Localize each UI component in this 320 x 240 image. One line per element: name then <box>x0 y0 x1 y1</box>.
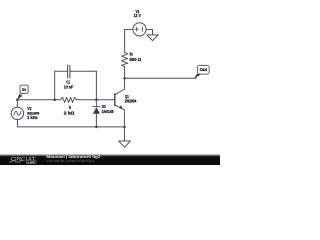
source V2 (square 1 kHz) <box>11 107 23 119</box>
ground (bottom) <box>119 141 131 147</box>
svg-text:LAB: LAB <box>28 160 36 164</box>
node collector junction <box>123 77 126 80</box>
flag In box <box>20 85 28 93</box>
flag In pointer <box>17 94 22 100</box>
wire V1 right lead <box>146 30 152 35</box>
wire main base net right segment <box>77 99 115 101</box>
svg-text:In: In <box>22 87 26 92</box>
wire emitter vertical <box>123 110 125 127</box>
node diode-top junction <box>95 98 98 101</box>
wire cap loop top-left horizontal <box>55 70 68 72</box>
resistor Rc <box>122 52 128 66</box>
logo LAB badge <box>26 160 36 164</box>
logo waveform stroke <box>9 161 23 162</box>
wire collector vertical <box>124 78 126 89</box>
resistor R <box>61 97 77 102</box>
footer bar <box>0 154 220 157</box>
capacitor C1 <box>68 65 70 78</box>
wire cap loop top-right horizontal <box>70 70 97 72</box>
svg-text:circuitlab.com/c/5mr5ku: circuitlab.com/c/5mr5ku <box>46 159 94 163</box>
node emitter-ground junction <box>123 126 126 129</box>
svg-text:500 Ω: 500 Ω <box>130 57 142 62</box>
diode D3 <box>93 107 100 114</box>
svg-text:2N3904: 2N3904 <box>125 99 137 104</box>
wire V2 lower lead <box>16 120 18 127</box>
wire main base net left segment <box>17 99 60 101</box>
svg-text:1N4148: 1N4148 <box>102 109 114 114</box>
wire Rc lower lead <box>124 67 126 79</box>
node cap-loop left junction <box>53 98 56 101</box>
source V1 (12 V DC) <box>133 23 146 36</box>
svg-text:12 V: 12 V <box>134 13 141 18</box>
node diode-bottom junction <box>95 126 98 129</box>
wire ground stem <box>124 127 126 141</box>
svg-text:Out: Out <box>200 67 208 72</box>
node A (input node junction) <box>16 98 19 101</box>
transistor Q1 <box>115 89 125 110</box>
svg-text:Rc: Rc <box>130 51 134 56</box>
svg-text:1 kHz: 1 kHz <box>27 115 38 120</box>
wire V2 upper lead <box>16 100 18 108</box>
svg-text:10 nF: 10 nF <box>64 85 74 90</box>
wire Rc upper lead <box>124 30 126 53</box>
ground (at V1) <box>147 35 158 41</box>
wire diode lower lead <box>95 114 97 127</box>
flag Out box <box>197 65 209 74</box>
wire diode upper lead <box>95 100 97 107</box>
wire output net <box>125 77 197 79</box>
wire bottom rail <box>17 126 124 128</box>
wire cap loop left vertical <box>54 71 56 99</box>
wire cap loop right vertical <box>95 71 97 99</box>
svg-text:2 kΩ: 2 kΩ <box>64 110 75 115</box>
logo CircuitLab wordmark <box>9 156 37 164</box>
flag Out pointer <box>194 74 201 79</box>
wire V1 left lead <box>125 29 133 31</box>
svg-text:R: R <box>69 105 72 110</box>
